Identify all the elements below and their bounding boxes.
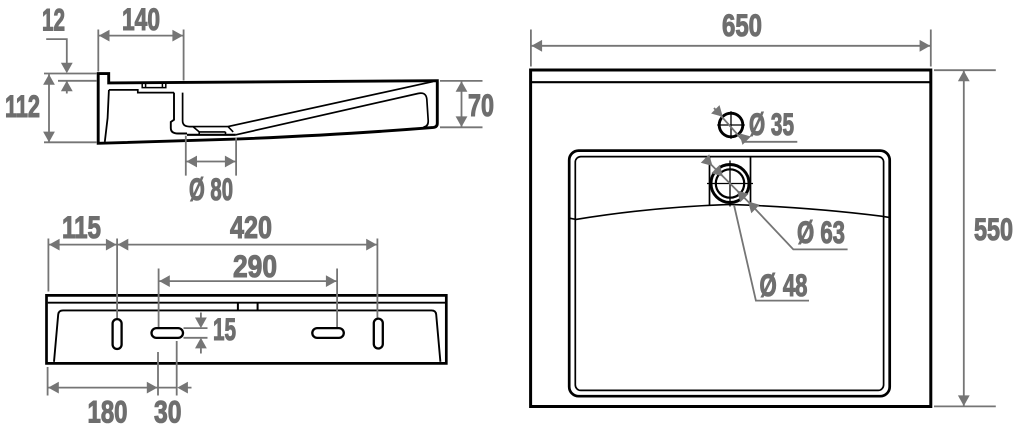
dim 290 line xyxy=(159,280,338,282)
svg-text:290: 290 xyxy=(233,248,277,284)
plan view: faucet hole circle O35 xyxy=(719,113,743,137)
side section view: basin outline xyxy=(98,74,437,144)
front view: outer body xyxy=(47,295,447,363)
svg-text:Ø 80: Ø 80 xyxy=(189,171,233,207)
dim O48 leader xyxy=(734,205,809,301)
side view: drain flat bottom (O80) xyxy=(187,134,236,136)
side view: inner slope lower line and front inner wall xyxy=(236,93,428,135)
plan view: outer rectangle xyxy=(531,70,931,407)
svg-text:420: 420 xyxy=(230,209,272,245)
dim 550 extension lines xyxy=(934,70,996,406)
front view: inner panel xyxy=(54,310,440,361)
side view: inner cavity top step xyxy=(109,90,174,93)
plan view: drain inner circle O48 xyxy=(716,169,744,197)
svg-text:15: 15 xyxy=(213,311,236,347)
plan view: faucet crosshair xyxy=(717,111,745,139)
svg-text:30: 30 xyxy=(154,394,182,430)
svg-text:550: 550 xyxy=(974,211,1013,247)
dims 115/420 line xyxy=(48,244,377,246)
dim 650 extension lines xyxy=(531,30,931,67)
svg-text:115: 115 xyxy=(62,209,101,245)
plan view: drain crosshair xyxy=(707,161,753,207)
plan view: basin rim inner xyxy=(575,157,883,391)
svg-text:180: 180 xyxy=(88,394,128,430)
dim 70 extension lines xyxy=(440,81,483,127)
dim O35 diagonal line xyxy=(714,108,797,142)
dim 112 line xyxy=(48,74,50,142)
side view: bowl surface line xyxy=(183,93,193,127)
dim 12 leader xyxy=(46,39,67,93)
svg-text:112: 112 xyxy=(5,88,40,124)
dim 140 line xyxy=(98,35,183,37)
side view: drain recess trapezoid xyxy=(193,127,233,135)
plan view: drain recess walls xyxy=(710,157,751,204)
side view: inner slope upper line xyxy=(228,82,433,127)
svg-text:140: 140 xyxy=(122,1,160,37)
dims 180/30 extension lines xyxy=(48,341,177,396)
dim 550 line xyxy=(963,70,965,406)
front view: faucet hole ticks xyxy=(238,303,258,311)
dim O80 line xyxy=(186,161,236,163)
dim 290 extension lines xyxy=(159,269,338,328)
dim O63/O48 diagonal line xyxy=(705,159,755,209)
svg-text:Ø 35: Ø 35 xyxy=(749,106,794,142)
side view: inner back wall xyxy=(105,90,109,142)
dim 650 line xyxy=(531,45,931,47)
svg-text:Ø 48: Ø 48 xyxy=(760,267,808,303)
front view: right vertical slot xyxy=(374,319,383,349)
side view: bowl back wall outer line xyxy=(171,93,187,134)
dim 70 line xyxy=(461,81,463,127)
dim 140 extension lines xyxy=(98,30,183,81)
plan view: basin floor contour xyxy=(570,204,890,219)
dim O80 extension lines xyxy=(186,136,236,176)
dim 12 / 112 extension ticks xyxy=(44,74,97,143)
svg-text:650: 650 xyxy=(722,7,762,43)
front view: deck edge line xyxy=(48,302,446,304)
front view: left horizontal slot xyxy=(152,328,184,338)
side view: faucet hole in deck xyxy=(142,83,166,88)
svg-text:12: 12 xyxy=(42,2,65,38)
plan view: back ledge line xyxy=(532,81,930,83)
dims 180/30 line xyxy=(48,387,192,389)
plan view: drain outer circle O63 xyxy=(711,165,749,203)
svg-text:Ø 63: Ø 63 xyxy=(797,214,845,250)
svg-text:70: 70 xyxy=(468,87,494,123)
plan view: basin rim outer xyxy=(569,151,890,397)
dim O63 leader xyxy=(751,205,848,250)
front view: left vertical slot xyxy=(113,319,122,349)
dim 15 leaders xyxy=(184,313,208,354)
front view: right horizontal slot xyxy=(312,328,344,338)
dims 115/420 extension lines xyxy=(48,239,377,319)
